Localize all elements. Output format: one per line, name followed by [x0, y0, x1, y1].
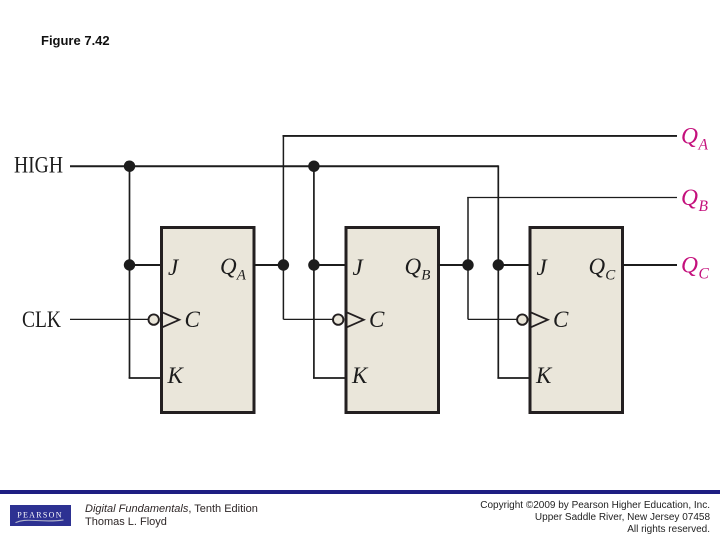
wire QA node to U2 clock bubble — [283, 318, 333, 320]
dynamic clock indicator U1 — [163, 312, 180, 327]
footer copyright — [430, 500, 710, 536]
pin label J of U2 — [353, 255, 365, 280]
wire QB output line to right edge — [467, 197, 677, 199]
svg-text:C: C — [605, 268, 616, 284]
svg-text:K: K — [535, 363, 553, 388]
svg-text:Q: Q — [681, 253, 698, 279]
node HIGH label — [14, 152, 63, 177]
pin label J of U3 — [537, 255, 549, 280]
wire HIGH drop to J/K of U2 — [313, 166, 315, 378]
svg-text:PEARSON: PEARSON — [17, 510, 63, 519]
wire J input U3 — [498, 264, 529, 266]
node QA output label — [681, 124, 709, 154]
Pearson swoosh — [16, 520, 64, 523]
wire K input U1 — [129, 377, 161, 379]
wire QB output of U2 to node — [439, 264, 469, 266]
wire HIGH corner drop to J/K of U3 — [497, 166, 498, 378]
svg-text:C: C — [699, 266, 710, 283]
footer blue rule — [0, 490, 720, 494]
node QB output label — [681, 185, 709, 215]
svg-text:CLK: CLK — [22, 307, 61, 332]
wire CLK to U1 clock bubble — [70, 318, 149, 320]
wire K input U2 — [313, 377, 345, 379]
svg-text:Q: Q — [405, 254, 422, 279]
wire QB node to U3 clock bubble — [468, 318, 517, 320]
junction QB node — [462, 259, 473, 270]
svg-text:HIGH: HIGH — [14, 152, 63, 177]
wire HIGH bus horizontal — [70, 165, 498, 167]
wire QB riser and drop to U3 clock — [467, 198, 469, 320]
pin label J of U1 — [168, 255, 180, 280]
dynamic clock indicator U2 — [347, 312, 364, 327]
Pearson logo — [10, 505, 71, 526]
clock bubble U2 — [333, 314, 343, 324]
svg-text:B: B — [421, 268, 430, 284]
node CLK label — [22, 307, 61, 332]
wire QA riser and drop to U2 clock — [282, 136, 284, 320]
svg-text:J: J — [537, 255, 549, 280]
wire QC output line to right edge — [623, 264, 677, 266]
wire J input U2 — [314, 264, 345, 266]
pin label C of U2 — [369, 307, 385, 332]
pin label QB of U2 — [405, 254, 431, 284]
svg-text:C: C — [553, 307, 569, 332]
svg-text:A: A — [698, 137, 709, 154]
svg-text:Q: Q — [589, 254, 606, 279]
node QC output label — [681, 253, 710, 283]
pin label K of U3 — [535, 363, 553, 388]
pin label QA of U1 — [220, 254, 247, 284]
svg-text:Q: Q — [220, 254, 237, 279]
pin label K of U1 — [167, 363, 185, 388]
flip-flop U3 body — [530, 228, 623, 413]
junction U1 J node — [124, 259, 135, 270]
svg-text:C: C — [185, 307, 201, 332]
figure caption — [41, 33, 110, 48]
junction HIGH bus / U2 drop — [308, 161, 319, 172]
svg-text:J: J — [168, 255, 180, 280]
wire J input U1 — [130, 264, 162, 266]
pin label C of U3 — [553, 307, 569, 332]
junction U3 J node — [493, 259, 504, 270]
svg-text:Q: Q — [681, 185, 698, 211]
svg-text:K: K — [351, 363, 369, 388]
footer book title — [85, 503, 258, 530]
wire HIGH drop to J/K of U1 — [129, 166, 131, 378]
flip-flop U2 body — [346, 228, 439, 413]
svg-text:Q: Q — [681, 124, 698, 150]
svg-text:K: K — [167, 363, 185, 388]
pin label K of U2 — [351, 363, 369, 388]
svg-text:A: A — [236, 268, 247, 284]
pin label C of U1 — [185, 307, 201, 332]
pin label QC of U3 — [589, 254, 617, 284]
junction QA node — [278, 259, 289, 270]
dynamic clock indicator U3 — [531, 312, 548, 327]
junction HIGH bus / U1 drop — [124, 161, 135, 172]
junction U2 J node — [308, 259, 319, 270]
svg-text:J: J — [353, 255, 365, 280]
clock bubble U1 — [149, 314, 159, 324]
wire K input U3 — [497, 377, 529, 379]
flip-flop U1 body — [162, 228, 255, 413]
wire QA output of U1 to node — [254, 264, 283, 266]
wire QA output line to right edge — [283, 135, 678, 137]
svg-text:B: B — [699, 198, 709, 215]
svg-text:C: C — [369, 307, 385, 332]
clock bubble U3 — [517, 314, 527, 324]
